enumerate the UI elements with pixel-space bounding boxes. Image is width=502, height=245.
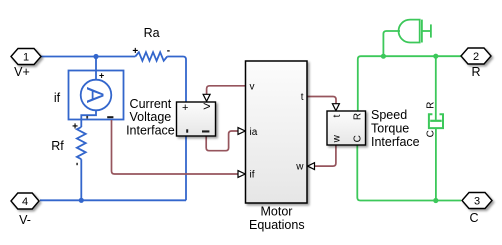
wire damper branch from rail [435, 56, 437, 120]
svg-text:Equations: Equations [249, 218, 305, 232]
wire interface minus down to V- rail [185, 136, 187, 200]
wire ammeter to Rf [80, 120, 82, 127]
svg-text:2: 2 [473, 51, 479, 63]
svg-text:R: R [471, 65, 480, 79]
svg-text:-: - [167, 46, 170, 57]
ammeter circle [81, 80, 112, 111]
wire Rf to V- rail [80, 159, 82, 200]
resistor Rf [77, 127, 86, 159]
arrowhead into interface top [203, 94, 210, 101]
svg-text:>: > [203, 99, 211, 114]
damper cup [429, 114, 443, 128]
block body [177, 102, 216, 136]
svg-text:Current: Current [130, 97, 172, 111]
svg-text:3: 3 [474, 196, 480, 208]
wire motor v to interface [207, 86, 246, 94]
svg-text:+: + [132, 46, 138, 57]
junction dot at V- rail / Rf [79, 198, 84, 203]
junction dot at Ra branch [93, 54, 98, 59]
svg-text:ia: ia [250, 127, 258, 138]
svg-text:+: + [182, 102, 188, 114]
arrowhead into motor if [238, 171, 245, 178]
ammeter current sensor box [69, 71, 124, 120]
svg-text:+: + [72, 122, 78, 133]
inertia icon [399, 20, 420, 43]
port dash bottom-right [202, 130, 209, 132]
svg-text:V-: V- [19, 213, 31, 227]
wire port1 to Ra [41, 56, 135, 58]
Rf minus tick [76, 163, 78, 165]
svg-text:1: 1 [23, 52, 29, 64]
resistor Ra [135, 52, 167, 61]
wire ammeter I out to motor if [112, 120, 238, 174]
svg-text:Motor: Motor [261, 205, 293, 219]
svg-text:Interface: Interface [126, 124, 175, 138]
svg-text:Ra: Ra [144, 26, 160, 40]
svg-text:R: R [426, 102, 437, 109]
svg-text:if: if [250, 170, 255, 181]
svg-text:w: w [295, 161, 304, 172]
svg-text:C: C [469, 211, 478, 225]
svg-text:C: C [426, 130, 437, 137]
svg-text:t: t [301, 92, 304, 103]
wire speed torque w to motor [315, 145, 336, 166]
junction dot damper top [433, 54, 438, 59]
junction dot damper bottom [433, 198, 438, 203]
svg-text:V+: V+ [14, 65, 30, 79]
wire inertia branch [383, 31, 400, 56]
svg-text:Rf: Rf [51, 139, 64, 153]
port 4 V- [11, 193, 39, 209]
ammeter PS minus dash [107, 116, 113, 118]
port 3 C [462, 193, 492, 209]
svg-text:if: if [54, 91, 61, 105]
block body [327, 111, 366, 145]
svg-text:t: t [332, 114, 343, 117]
junction dot inertia [381, 54, 386, 59]
arrowhead into motor w [308, 163, 315, 170]
ammeter internal wires [81, 70, 96, 120]
svg-text:+: + [99, 70, 104, 80]
arrowhead into motor ia [238, 128, 245, 135]
svg-text:w: w [332, 134, 343, 143]
wire motor t to speed torque interface [307, 97, 336, 104]
wire damper to bottom rail [435, 128, 437, 200]
svg-text:R: R [353, 113, 364, 120]
wire speed torque C to bottom rail and port3 [357, 145, 461, 201]
svg-text:v: v [250, 82, 255, 93]
damper piston [430, 120, 442, 122]
wire V- rail [40, 199, 186, 201]
ammeter minus port tick [86, 116, 88, 119]
wire ammeter branch [95, 57, 97, 71]
port tick bottom-left [186, 129, 188, 132]
svg-text:4: 4 [22, 196, 28, 208]
wire interface out to motor ia [206, 131, 237, 151]
wire top rail to port2 [358, 56, 461, 111]
svg-text:Speed: Speed [371, 108, 407, 122]
svg-text:Torque: Torque [371, 122, 409, 136]
wire Ra to interface + [167, 57, 186, 103]
svg-text:Voltage: Voltage [130, 110, 172, 124]
arrowhead into speed torque t [332, 104, 339, 111]
svg-text:C: C [353, 135, 364, 142]
port 2 R [461, 48, 491, 64]
svg-text:Interface: Interface [371, 135, 420, 149]
port 1 V+ [11, 49, 41, 65]
svg-text:A: A [81, 87, 108, 103]
block body [246, 61, 308, 203]
